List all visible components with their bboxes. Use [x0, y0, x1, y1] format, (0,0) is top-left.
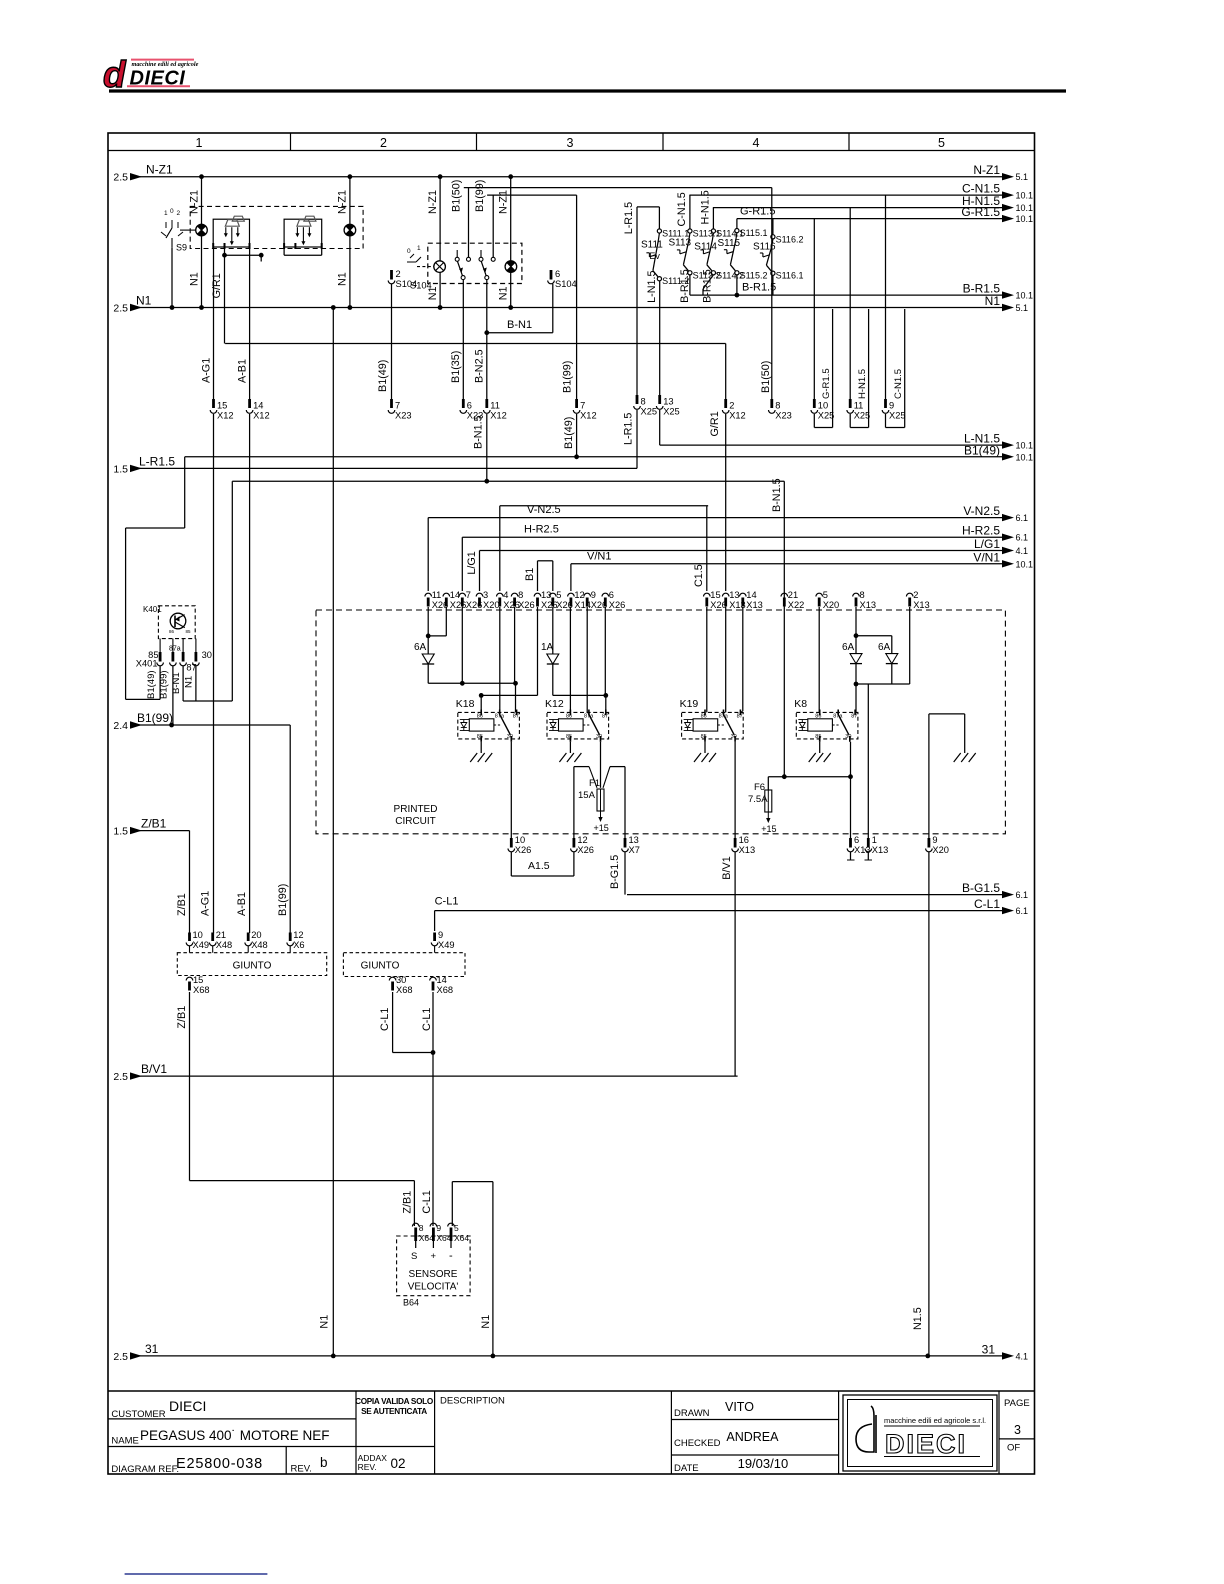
svg-text:B64: B64: [403, 1298, 419, 1308]
svg-text:02: 02: [391, 1456, 406, 1471]
wire S111 to 13/X25 L-N1.5: [659, 281, 661, 399]
svg-text:14: 14: [253, 401, 263, 411]
svg-text:B1(99): B1(99): [159, 670, 170, 699]
flasher junction bar 2: [284, 254, 322, 256]
header rule: [109, 89, 1066, 92]
svg-text:X26: X26: [515, 845, 532, 855]
svg-text:B/V1: B/V1: [721, 856, 733, 879]
wire K8 87 feed: [855, 684, 857, 712]
svg-text:C-L1: C-L1: [379, 1008, 391, 1031]
pin 12/X6 giunto top: [289, 933, 292, 942]
svg-text:15A: 15A: [578, 790, 596, 801]
switch in box 2: [479, 250, 495, 280]
svg-text:14: 14: [746, 590, 756, 600]
svg-text:86: 86: [815, 714, 821, 720]
svg-text:31: 31: [145, 1342, 159, 1356]
svg-text:Z/B1: Z/B1: [176, 893, 188, 916]
wire 8/X26 drop: [514, 607, 516, 683]
svg-text:X13: X13: [746, 600, 763, 610]
svg-text:B1(49): B1(49): [563, 417, 575, 449]
svg-text:S111: S111: [641, 240, 663, 251]
wire B1 bridge: [538, 560, 553, 562]
pin 14/X13 top row: [740, 593, 747, 596]
svg-text:d: d: [103, 54, 127, 95]
svg-text:2: 2: [396, 269, 401, 279]
svg-text:15: 15: [193, 975, 203, 985]
wire C-L1 drop to 9/X49: [434, 911, 436, 931]
svg-text:N-Z1: N-Z1: [427, 190, 439, 214]
svg-text:87a: 87a: [584, 714, 594, 720]
svg-text:K8: K8: [794, 698, 807, 710]
svg-text:G-R1.5: G-R1.5: [961, 205, 1000, 219]
wire Z/B1 horizontal to sensor: [190, 1180, 415, 1182]
svg-text:N1: N1: [985, 294, 1001, 308]
wire 2/X13 riser: [909, 607, 911, 684]
svg-text:10.1: 10.1: [1016, 203, 1034, 213]
wire B1(99) top link: [487, 194, 576, 196]
svg-text:A-B1: A-B1: [237, 359, 249, 383]
svg-text:A-G1: A-G1: [200, 891, 212, 916]
wire L-R1.5 riser top link: [636, 207, 638, 396]
svg-text:N1: N1: [136, 294, 152, 308]
svg-text:5: 5: [823, 590, 828, 600]
svg-text:X25: X25: [818, 411, 835, 421]
svg-text:4.1: 4.1: [1016, 1351, 1029, 1361]
svg-text:87: 87: [737, 714, 743, 720]
svg-text:X68: X68: [437, 985, 454, 995]
pin 8/X26 top row: [511, 593, 518, 596]
wire S116 to B-R1.5: [772, 275, 774, 295]
wire B1 bridge drops: [537, 561, 539, 591]
DIECI logo bottom: [843, 1395, 997, 1471]
svg-text:10.1: 10.1: [1016, 559, 1034, 569]
svg-text:6.1: 6.1: [1016, 513, 1029, 523]
wire 7/X26 drop: [461, 607, 463, 683]
wire V/N1 drop to 12/X14: [570, 564, 572, 591]
svg-text:X49: X49: [438, 940, 455, 950]
svg-text:3: 3: [567, 136, 574, 150]
svg-text:E25800-038: E25800-038: [176, 1456, 263, 1472]
wire A1.5 link: [510, 852, 512, 876]
svg-text:NAME: NAME: [111, 1436, 138, 1447]
svg-text:7: 7: [395, 401, 400, 411]
wire B1(99) left bus: [131, 724, 290, 726]
wire K401 pin2 B1(99): [172, 666, 174, 725]
svg-text:Z/B1: Z/B1: [141, 817, 167, 831]
svg-text:N-Z1: N-Z1: [189, 190, 201, 214]
svg-text:85: 85: [701, 734, 707, 740]
pin 21/X48 giunto top: [211, 933, 214, 942]
svg-text:10.1: 10.1: [1016, 441, 1034, 451]
svg-text:2.5: 2.5: [113, 1351, 128, 1363]
svg-text:X26: X26: [577, 845, 594, 855]
svg-text:4.1: 4.1: [1016, 546, 1029, 556]
svg-text:X26: X26: [541, 600, 558, 610]
wire B-N1.5 long link: [232, 480, 784, 482]
svg-text:H-N1.5: H-N1.5: [857, 369, 868, 399]
wire C-L1 right leg: [432, 992, 434, 1226]
wire lamp E2 to N1: [349, 236, 351, 308]
switch S114: [712, 208, 714, 229]
wire A-G1 drop: [213, 249, 215, 400]
switch in box 1: [455, 250, 470, 280]
wire 6/S104 down to B-N1: [552, 284, 554, 291]
svg-text:C-L1: C-L1: [435, 896, 459, 908]
connector pin 7/X23: [390, 399, 393, 408]
svg-text:X64: X64: [436, 1233, 451, 1243]
svg-text:16: 16: [739, 835, 749, 845]
svg-text:21: 21: [788, 590, 798, 600]
svg-text:A-B1: A-B1: [236, 892, 248, 916]
svg-text:PAGE: PAGE: [1004, 1398, 1030, 1409]
svg-text:9: 9: [436, 1223, 441, 1233]
switch S116: [753, 234, 803, 280]
page cell: [1004, 1398, 1030, 1454]
connector pin 2/X12: [724, 399, 727, 408]
fuse F6: [767, 777, 769, 790]
svg-text:H-R2.5: H-R2.5: [962, 524, 1000, 538]
svg-text:6: 6: [467, 401, 472, 411]
svg-text:8: 8: [641, 397, 646, 407]
svg-text:8: 8: [518, 590, 523, 600]
pin 6/S104: [550, 270, 553, 280]
svg-text:X22: X22: [788, 600, 805, 610]
svg-text:9: 9: [591, 590, 596, 600]
svg-text:N1: N1: [337, 272, 349, 286]
svg-text:11: 11: [432, 590, 442, 600]
wire A-B1 long: [249, 414, 251, 933]
svg-text:5.1: 5.1: [1016, 303, 1029, 313]
wire C-L1 left leg: [392, 992, 394, 1053]
svg-text:14: 14: [450, 590, 460, 600]
svg-text:S104: S104: [396, 279, 418, 289]
svg-text:G-R1.5: G-R1.5: [821, 368, 832, 399]
wire lamp E3 to N1: [439, 272, 441, 307]
switch S111: [641, 229, 689, 287]
svg-text:10.1: 10.1: [1016, 191, 1034, 201]
svg-text:N-Z1: N-Z1: [337, 190, 349, 214]
connector pin 13/X25: [658, 395, 661, 404]
wire H-R2.5: [462, 536, 1003, 538]
wire sensor pin3 to N1: [451, 1182, 453, 1226]
pin 21/X22 top row: [781, 593, 788, 596]
wire C1.5 bridge drops: [499, 506, 501, 591]
lamp E3: [434, 261, 446, 273]
svg-text:30: 30: [845, 734, 851, 740]
svg-text:10: 10: [515, 835, 525, 845]
svg-text:1: 1: [164, 210, 168, 217]
svg-text:5.1: 5.1: [1016, 172, 1029, 182]
switch S113: [669, 229, 721, 281]
pin 9/X20 bottom row: [928, 838, 931, 848]
svg-text:13: 13: [629, 835, 639, 845]
diode 6A left: [427, 607, 429, 636]
wire G/R1 horizontal: [225, 343, 726, 345]
svg-text:DESCRIPTION: DESCRIPTION: [440, 1396, 505, 1407]
drawing frame: [108, 133, 1035, 1474]
svg-text:S: S: [411, 1251, 417, 1262]
lamp E2 section1 right: [344, 224, 356, 236]
svg-text:B-G1.5: B-G1.5: [962, 881, 1000, 895]
connector X25 detail box 2 H-N1.5: [868, 309, 870, 428]
dashed enclosure S104 lamps: [428, 243, 522, 283]
pin 13/X13 top row: [722, 593, 729, 596]
svg-text:PRINTED: PRINTED: [394, 804, 438, 815]
pin 5/X64 sensor: [448, 1223, 455, 1226]
svg-text:C-N1.5: C-N1.5: [676, 192, 688, 226]
svg-text:S115.2: S115.2: [740, 270, 768, 280]
pin 20/X48 giunto top: [247, 933, 250, 942]
wire K8 86 feed: [818, 607, 820, 712]
svg-text:SENSORE: SENSORE: [409, 1269, 458, 1280]
wire B/V1 riser: [734, 852, 736, 1076]
svg-text:L/G1: L/G1: [466, 551, 478, 574]
relay K19: [680, 698, 744, 742]
svg-text:30: 30: [507, 734, 513, 740]
connector pin 10/X25: [813, 399, 816, 408]
wire H-N1.5: [713, 207, 1003, 209]
DIECI header logo: [103, 54, 199, 95]
svg-text:X68: X68: [193, 985, 210, 995]
wire G/R1 through 13/X13: [725, 481, 727, 591]
svg-text:11: 11: [854, 401, 864, 411]
connector pin 15/X12: [212, 399, 215, 408]
svg-text:85: 85: [815, 734, 821, 740]
fuse F6 bar: [768, 776, 850, 778]
svg-text:X13: X13: [860, 600, 877, 610]
svg-text:7: 7: [580, 401, 585, 411]
svg-text:GIUNTO: GIUNTO: [233, 961, 272, 972]
wire G-R1.5: [737, 218, 1003, 220]
svg-text:2.5: 2.5: [113, 303, 128, 315]
svg-text:S115.1: S115.1: [740, 228, 768, 238]
svg-text:C-L1: C-L1: [421, 1190, 433, 1213]
wire N-Z1 bus: [131, 176, 1003, 178]
svg-text:VELOCITA': VELOCITA': [408, 1282, 459, 1293]
svg-text:30: 30: [731, 734, 737, 740]
svg-text:V/N1: V/N1: [587, 551, 611, 563]
svg-text:10.1: 10.1: [1016, 291, 1034, 301]
svg-text:K12: K12: [545, 698, 564, 710]
switch S113: [689, 195, 691, 229]
svg-text:Ev: Ev: [649, 251, 660, 261]
svg-text:9: 9: [438, 930, 443, 940]
wire K401 pins to riser 232: [183, 700, 232, 702]
svg-text:X12: X12: [217, 411, 234, 421]
svg-text:X64: X64: [419, 1233, 434, 1243]
svg-text:B1(99): B1(99): [277, 884, 289, 916]
svg-text:REV.: REV.: [291, 1464, 312, 1475]
svg-text:N-Z1: N-Z1: [146, 163, 173, 177]
svg-text:+15: +15: [594, 823, 609, 833]
svg-text:DIECI: DIECI: [169, 1398, 206, 1414]
pin 9/X64 sensor: [430, 1223, 437, 1226]
svg-text:2.5: 2.5: [113, 1071, 128, 1083]
svg-text:87a: 87a: [833, 714, 843, 720]
pin 7/X26 top row: [459, 593, 466, 596]
wire lamp E1 to N1: [201, 236, 203, 308]
svg-text:OF: OF: [1007, 1443, 1020, 1454]
connector pin 8/X23: [770, 399, 773, 408]
svg-text:B1(99): B1(99): [562, 361, 574, 393]
pin 8/X13 top row: [853, 593, 860, 596]
svg-text:X26: X26: [609, 600, 626, 610]
connector pin 9/X25: [884, 399, 887, 408]
wire Z/B1 lower: [189, 992, 191, 1181]
wire lamp E4 to N1: [510, 272, 512, 307]
svg-text:86: 86: [477, 714, 483, 720]
svg-text:S116.1: S116.1: [776, 271, 804, 281]
svg-text:87: 87: [602, 714, 608, 720]
svg-text:CUSTOMER: CUSTOMER: [111, 1409, 165, 1420]
svg-text:G/R1: G/R1: [211, 273, 223, 298]
svg-text:8: 8: [860, 590, 865, 600]
svg-text:G/R1: G/R1: [709, 411, 721, 436]
svg-text:B-N1: B-N1: [171, 672, 182, 694]
pin 1/X13 bottom row: [867, 838, 870, 848]
wire C-N1.5: [689, 194, 1003, 196]
svg-text:X13: X13: [872, 845, 889, 855]
wire K401 pin3 B-N1: [182, 666, 184, 701]
pin 3/X20 top row: [476, 593, 483, 596]
pin 2/X13 top row: [906, 593, 913, 596]
wire K18 30 to 10/X26: [510, 742, 512, 838]
svg-text:A-G1: A-G1: [201, 358, 213, 383]
wire K8 30 to F6 bar and 6/X13: [850, 742, 852, 838]
pin 4/X26 top row: [497, 593, 504, 596]
svg-text:F6: F6: [754, 782, 765, 793]
wire L/G1: [480, 550, 1004, 552]
svg-text:30: 30: [202, 650, 212, 660]
svg-text:B-R1.5: B-R1.5: [742, 282, 776, 294]
svg-text:X12: X12: [490, 411, 507, 421]
svg-text:1.5: 1.5: [113, 826, 128, 838]
wire B-N1.5 riser: [783, 481, 785, 777]
speed sensor B64: [397, 1236, 471, 1308]
svg-text:X25: X25: [663, 407, 680, 417]
wire C-L1 exit: [435, 910, 1003, 912]
column header band: [108, 150, 1035, 152]
pin 2/S104: [390, 270, 393, 280]
svg-text:N1: N1: [498, 286, 510, 300]
svg-text:A1.5: A1.5: [528, 860, 550, 872]
svg-text:12: 12: [577, 835, 587, 845]
svg-text:CIRCUIT: CIRCUIT: [395, 816, 436, 827]
svg-text:G-R1.5: G-R1.5: [740, 206, 775, 218]
svg-text:6.1: 6.1: [1016, 533, 1029, 543]
svg-text:B-G1.5: B-G1.5: [609, 855, 621, 889]
printed circuit dashed box: [316, 610, 1005, 834]
connector pin 8/X25: [636, 395, 639, 404]
title block texts left: [111, 1398, 329, 1475]
svg-text:6A: 6A: [878, 642, 891, 653]
svg-text:X26: X26: [450, 600, 467, 610]
svg-text:8: 8: [419, 1223, 424, 1233]
svg-text:V/N1: V/N1: [973, 550, 1000, 564]
svg-text:Z/B1: Z/B1: [402, 1191, 414, 1214]
svg-text:L-R1.5: L-R1.5: [623, 202, 635, 234]
svg-text:S104: S104: [555, 279, 577, 289]
svg-text:DIAGRAM REF.: DIAGRAM REF.: [111, 1464, 179, 1475]
svg-text:10: 10: [818, 401, 828, 411]
svg-text:3: 3: [1014, 1423, 1021, 1437]
svg-text:20: 20: [251, 930, 261, 940]
wire A-B1 drop: [249, 249, 251, 400]
relay K8: [794, 698, 858, 742]
svg-text:X12: X12: [580, 411, 597, 421]
wire K401 pin4 N1: [195, 666, 197, 701]
svg-text:B1(49): B1(49): [964, 443, 1000, 457]
svg-text:X25: X25: [641, 407, 658, 417]
wire 6/X26 drop: [604, 607, 606, 695]
svg-text:N1: N1: [189, 272, 201, 286]
svg-text:F1: F1: [589, 778, 600, 789]
pin 15/X68 giunto left bottom: [186, 977, 193, 980]
svg-text:B1(49): B1(49): [377, 360, 389, 392]
svg-text:X401: X401: [136, 659, 158, 669]
svg-text:+15: +15: [761, 824, 776, 834]
svg-text:87: 87: [513, 714, 519, 720]
wire N1.5 riser from 9/X20: [928, 852, 930, 1356]
svg-text:X25: X25: [854, 411, 871, 421]
svg-text:-: -: [449, 1250, 453, 1262]
svg-text:DRAWN: DRAWN: [674, 1408, 710, 1419]
wire diode 6A to bar: [427, 664, 429, 683]
svg-text:DIECI: DIECI: [885, 1429, 967, 1459]
wire C-N1.5 junction drop: [885, 195, 887, 399]
drawn checked date: [674, 1400, 788, 1474]
wire H-N1.5 junction drop: [849, 208, 851, 399]
svg-text:+: +: [431, 1251, 437, 1262]
switch S115: [718, 228, 768, 280]
svg-text:SE AUTENTICATA: SE AUTENTICATA: [361, 1407, 427, 1416]
svg-text:87: 87: [851, 714, 857, 720]
wire 2/S104 down to 7/X23: [391, 284, 393, 399]
svg-text:S116.2: S116.2: [776, 234, 804, 244]
svg-text:B1(49): B1(49): [146, 670, 157, 699]
wire K12 86 feed: [569, 607, 571, 712]
wire switch1 to pin 6/X23: [462, 280, 464, 399]
svg-text:9: 9: [889, 401, 894, 411]
wire B1(50) top link: [464, 187, 772, 189]
pin 16/X13 bottom row: [734, 838, 737, 848]
pin 5/X26 top row: [550, 593, 557, 596]
wire K18 86 feed: [537, 607, 539, 695]
svg-text:L-R1.5: L-R1.5: [139, 454, 175, 468]
wire K12 30 to fuse F1: [600, 742, 602, 788]
wire B-R1.5: [690, 294, 1003, 296]
svg-text:B1(35): B1(35): [450, 351, 462, 383]
svg-text:B-N1.5: B-N1.5: [473, 415, 485, 449]
svg-text:S113: S113: [669, 237, 692, 248]
switch S114: [694, 229, 744, 281]
svg-text:REV.: REV.: [358, 1462, 377, 1472]
pin 6/X26 top row: [602, 593, 609, 596]
svg-text:X20: X20: [932, 845, 949, 855]
flasher unit 2: [284, 219, 322, 247]
svg-text:S114: S114: [694, 242, 717, 253]
svg-text:S116: S116: [753, 242, 776, 253]
lamp E1 section1 left: [196, 224, 208, 236]
svg-text:31: 31: [982, 1342, 996, 1356]
wire pin7X12 to B1(49): [576, 414, 578, 457]
svg-text:5: 5: [454, 1223, 459, 1233]
svg-text:C-L1: C-L1: [974, 897, 1000, 911]
pin 14/X26 top row: [443, 593, 450, 596]
svg-text:B-R1.5: B-R1.5: [963, 282, 1001, 296]
svg-text:30: 30: [396, 975, 406, 985]
fuse F1 funnel: [573, 767, 575, 838]
